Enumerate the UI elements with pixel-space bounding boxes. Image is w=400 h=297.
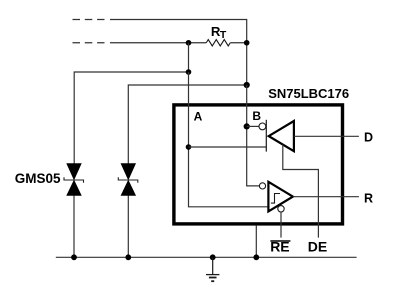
wire: TVS2 lower lead to ground rail [127,195,129,257]
wire: bus line 2 dashed segment [73,42,105,44]
svg-text:SN75LBC176: SN75LBC176 [268,86,349,101]
node: TVS1 on ground rail [71,254,77,260]
wire: drop from line2 junction to A rail [188,43,190,72]
wire: TVS1 lower lead to ground rail [73,195,75,257]
receiver inverting input bubble [259,183,265,189]
wire: bottom ground rail [56,256,357,258]
receiver enable bubble [278,206,284,212]
driver output bar [265,120,267,152]
wire: A rail horizontal to left TVS column [74,72,188,164]
node: IC ground pin tap [253,254,259,260]
svg-text:R: R [364,191,373,205]
wire: A pin vertical into box down to receiver lower input [189,72,269,207]
node: TVS2 on ground rail [125,254,131,260]
wire: top bus line 1 solid run to right elbow down to node B column [110,20,247,86]
IC box SN75LBC176 [174,105,343,224]
wire: receiver output R to right edge [293,196,359,198]
driver inverting bubble [259,123,266,130]
node: junction line2 / A drop [186,40,192,46]
resistor RT zigzag body [206,40,230,46]
node: B rail junction [244,82,250,88]
node: RT right end [244,40,250,46]
wire: B pin vertical into box down to receiver inverting input [247,85,260,186]
receiver hysteresis symbol [271,194,280,204]
svg-text:GMS05: GMS05 [15,171,61,186]
svg-text:D: D [364,130,373,144]
wire: RE enable from bubble down to label [280,212,282,238]
wire: link from A junction to driver output bar [189,146,267,148]
svg-text:T: T [220,29,227,41]
node: A pin junction with driver output link [186,144,192,150]
wire: driver input D to right edge [294,135,359,137]
svg-text:DE: DE [308,239,327,255]
svg-text:A: A [194,109,203,123]
wire: B junction to driver inverting bubble [247,125,259,127]
svg-text:B: B [252,109,261,123]
wire: bus line 2 solid run to resistor [110,42,206,44]
TVS diode GMS05 #1 [64,164,84,196]
wire: DE enable from driver hypotenuse down and over [283,145,319,238]
wire: top bus line 1 dashed segment [73,19,105,21]
wire: B rail horizontal to second TVS column [128,85,246,164]
TVS diode GMS05 #2 [118,164,138,196]
op-amp receiver triangle [268,182,293,212]
wire: IC ground pin to ground rail [255,226,257,258]
node: ground symbol tap [210,254,216,260]
ground [206,257,219,281]
op-amp driver triangle [269,121,294,151]
node: B pin junction to driver bubble [244,123,250,129]
wire: resistor right lead to node B column [230,42,246,44]
node: A rail junction [186,69,192,75]
